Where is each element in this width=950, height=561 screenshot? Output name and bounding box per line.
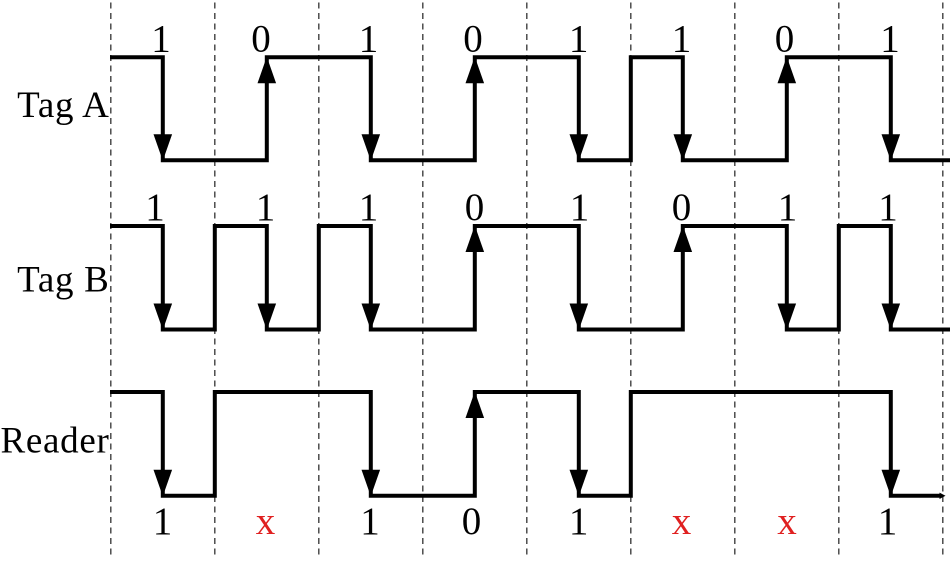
svg-text:1: 1	[672, 18, 692, 61]
svg-text:1: 1	[145, 186, 165, 229]
svg-text:1: 1	[569, 18, 589, 61]
svg-text:1: 1	[880, 18, 900, 61]
svg-text:1: 1	[778, 186, 798, 229]
svg-text:1: 1	[153, 500, 173, 543]
svg-text:x: x	[672, 500, 692, 543]
svg-text:1: 1	[151, 18, 171, 61]
svg-text:1: 1	[256, 186, 276, 229]
svg-text:1: 1	[359, 186, 379, 229]
svg-text:0: 0	[462, 500, 482, 543]
svg-text:1: 1	[570, 186, 590, 229]
svg-text:1: 1	[569, 500, 589, 543]
svg-text:x: x	[256, 500, 276, 543]
svg-text:x: x	[777, 500, 797, 543]
svg-text:Tag B: Tag B	[17, 259, 109, 300]
svg-text:1: 1	[360, 500, 380, 543]
svg-text:0: 0	[465, 186, 485, 229]
svg-text:1: 1	[878, 186, 898, 229]
svg-text:1: 1	[878, 500, 898, 543]
svg-text:1: 1	[359, 18, 379, 61]
svg-text:0: 0	[775, 18, 795, 61]
svg-text:0: 0	[251, 18, 271, 61]
svg-text:0: 0	[672, 186, 692, 229]
svg-text:Tag A: Tag A	[17, 85, 109, 126]
svg-text:Reader: Reader	[1, 421, 110, 462]
svg-text:0: 0	[463, 18, 483, 61]
